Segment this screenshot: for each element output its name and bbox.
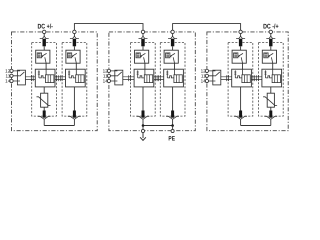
varistor bbox=[37, 93, 51, 107]
wire bbox=[45, 63, 47, 69]
plug contacts on FM pair bbox=[227, 75, 229, 81]
wire bbox=[43, 34, 45, 37]
plug-in contact clip (top) bbox=[40, 36, 49, 38]
terminal circle bbox=[171, 30, 174, 33]
terminal circle bbox=[43, 30, 46, 33]
FM terminal 14 bbox=[107, 79, 110, 82]
changeover contact box (FM) bbox=[13, 70, 25, 85]
thermal disconnecting device bbox=[262, 50, 276, 63]
plug-in contact clip (top) bbox=[236, 36, 245, 38]
FM terminal 14 bbox=[205, 79, 208, 82]
bottom connecting bus bbox=[44, 125, 74, 127]
ground symbol bbox=[142, 133, 144, 138]
plug-in contact clip (top) bbox=[139, 36, 148, 38]
plug-in contact clip (top) bbox=[70, 36, 79, 38]
SCI switch and fuse device bbox=[262, 69, 282, 87]
wire bbox=[43, 107, 45, 110]
wire bbox=[43, 46, 45, 50]
plug-in module outline (left, dashed) bbox=[32, 43, 57, 117]
thermal disconnecting device bbox=[135, 50, 149, 63]
module pin (top) bbox=[171, 39, 174, 47]
terminal circle bbox=[141, 30, 144, 33]
wire bbox=[240, 34, 242, 37]
FM terminal 12 bbox=[10, 69, 13, 72]
module 1 enclosure (dash-dot) bbox=[12, 32, 98, 131]
wire bbox=[240, 46, 242, 50]
wire bbox=[270, 87, 272, 93]
earth terminal circle bbox=[141, 129, 144, 132]
module pin (bottom) bbox=[269, 111, 272, 118]
wire bbox=[240, 87, 242, 111]
wire bbox=[73, 34, 75, 37]
wire bbox=[142, 119, 144, 125]
bottom connecting bus bbox=[143, 125, 173, 127]
FM terminal 12 bbox=[205, 69, 208, 72]
bottom connecting bus bbox=[241, 125, 271, 127]
FM terminal 11 bbox=[107, 74, 110, 77]
plug-in module outline (right, dashed) bbox=[160, 43, 185, 117]
module pin (bottom) bbox=[73, 111, 76, 118]
wire bbox=[172, 34, 174, 37]
FM terminal 14 bbox=[10, 79, 13, 82]
wire bbox=[172, 46, 174, 50]
svg-text:PE: PE bbox=[168, 135, 175, 142]
wire bbox=[75, 63, 77, 69]
varistor bbox=[263, 93, 277, 107]
plug contacts on linking pair bbox=[253, 75, 259, 81]
module pin (bottom) bbox=[142, 111, 145, 118]
SCI switch and fuse device bbox=[232, 69, 252, 87]
svg-text:14: 14 bbox=[103, 79, 109, 84]
linking wire pair between paths bbox=[55, 77, 66, 80]
svg-text:14: 14 bbox=[201, 79, 207, 84]
svg-text:DC +/-: DC +/- bbox=[37, 23, 52, 30]
plug contacts on FM pair bbox=[129, 75, 131, 81]
plug contacts on linking pair bbox=[155, 75, 160, 81]
terminal circle bbox=[73, 30, 76, 33]
wire bbox=[242, 63, 244, 69]
module 3 enclosure (dash-dot) bbox=[207, 32, 288, 131]
thermal disconnecting device bbox=[66, 50, 80, 63]
wire bbox=[43, 119, 45, 125]
changeover contact box (FM) bbox=[209, 70, 221, 85]
module pin (top) bbox=[141, 39, 144, 47]
wire bbox=[142, 87, 144, 111]
wire bbox=[270, 34, 272, 37]
FM wire pair bbox=[123, 77, 134, 80]
wire bbox=[73, 87, 75, 111]
plug-in contact clip (bottom) bbox=[38, 116, 51, 119]
wire bbox=[73, 119, 75, 125]
SCI switch and fuse device bbox=[134, 69, 154, 87]
wire bbox=[172, 119, 174, 125]
FM terminal 11 bbox=[10, 74, 13, 77]
FM wire pair bbox=[221, 77, 232, 80]
thermal disconnecting device bbox=[36, 50, 50, 63]
wire bbox=[270, 107, 272, 110]
wire bbox=[142, 46, 144, 50]
thermal disconnecting device bbox=[164, 50, 178, 63]
module pin (bottom) bbox=[239, 111, 242, 118]
plug-in module outline (left, dashed) bbox=[228, 43, 253, 117]
wire to earth terminal bbox=[142, 126, 144, 130]
plug-in contact clip (top) bbox=[266, 36, 275, 38]
SCI switch and fuse device bbox=[66, 69, 86, 87]
junction dot right bbox=[171, 124, 174, 127]
linking wire pair between paths bbox=[251, 77, 262, 80]
plug-in contact clip (bottom) bbox=[234, 116, 247, 119]
module pin (bottom) bbox=[43, 111, 46, 118]
junction dot left bbox=[142, 124, 145, 127]
terminal circle bbox=[269, 30, 272, 33]
plug-in contact clip (bottom) bbox=[68, 116, 81, 119]
wire bbox=[270, 46, 272, 50]
FM terminal 11 bbox=[205, 74, 208, 77]
wire bbox=[142, 34, 144, 37]
top bus module1-module2 bbox=[74, 24, 143, 31]
PE terminal circle bbox=[171, 129, 174, 132]
plug-in module outline (right, dashed) bbox=[259, 43, 284, 117]
FM terminal 12 bbox=[107, 69, 110, 72]
plug-in contact clip (bottom) bbox=[166, 116, 179, 119]
module 2 enclosure (dash-dot) bbox=[109, 32, 195, 131]
plug-in module outline (left, dashed) bbox=[131, 43, 156, 117]
module pin (top) bbox=[73, 39, 76, 47]
terminal circle bbox=[239, 30, 242, 33]
SCI switch and fuse device bbox=[164, 69, 184, 87]
wire bbox=[73, 46, 75, 50]
plug-in contact clip (bottom) bbox=[265, 116, 278, 119]
svg-text:14: 14 bbox=[5, 79, 11, 84]
wire bbox=[172, 87, 174, 111]
plug-in contact clip (bottom) bbox=[137, 116, 150, 119]
wire bbox=[174, 63, 176, 69]
top bus module2-module3 bbox=[173, 24, 241, 31]
module pin (bottom) bbox=[171, 111, 174, 118]
wire to PE terminal bbox=[172, 126, 174, 130]
plug contacts on linking pair bbox=[57, 75, 63, 81]
plug-in contact clip (top) bbox=[168, 36, 177, 38]
plug contacts on FM pair bbox=[31, 75, 33, 81]
FM wire pair bbox=[25, 77, 35, 80]
wire bbox=[144, 63, 146, 69]
wire bbox=[43, 87, 45, 93]
linking wire pair between paths bbox=[154, 77, 164, 80]
changeover contact box (FM) bbox=[111, 70, 123, 85]
module pin (top) bbox=[269, 39, 272, 47]
wire bbox=[272, 63, 274, 69]
SCI switch and fuse device bbox=[35, 69, 55, 87]
svg-text:DC -/+: DC -/+ bbox=[263, 23, 278, 30]
module pin (top) bbox=[43, 39, 46, 47]
wire bbox=[240, 119, 242, 125]
wire bbox=[270, 119, 272, 125]
plug-in module outline (right, dashed) bbox=[62, 43, 87, 117]
thermal disconnecting device bbox=[232, 50, 246, 63]
module pin (top) bbox=[239, 39, 242, 47]
